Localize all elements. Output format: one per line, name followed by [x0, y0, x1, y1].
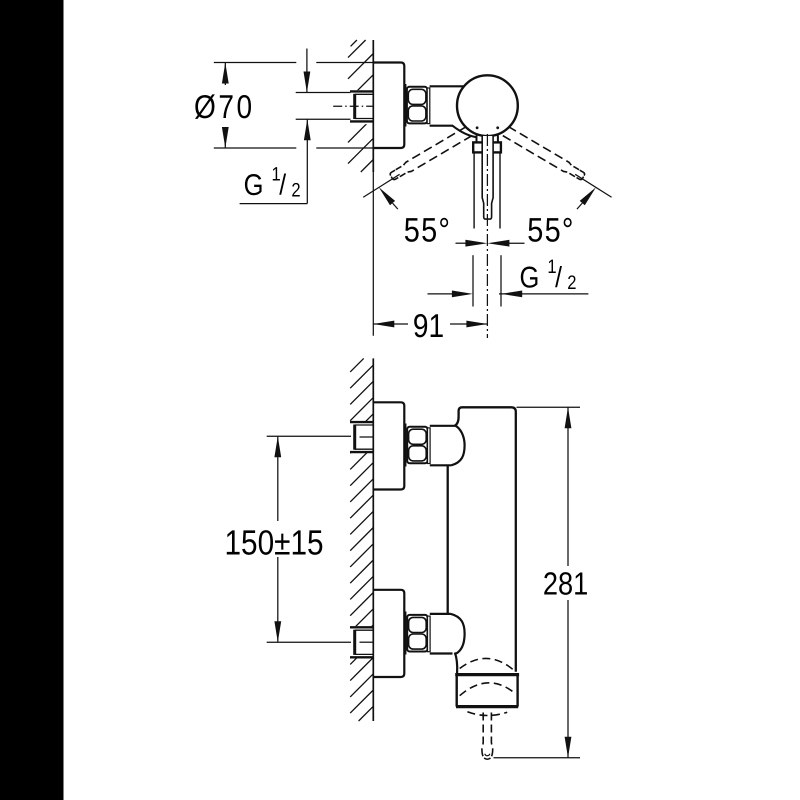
svg-text:G: G — [520, 261, 540, 294]
svg-text:G: G — [244, 169, 264, 202]
svg-text:55°: 55° — [527, 211, 575, 249]
svg-text:55°: 55° — [404, 211, 452, 249]
svg-text:2: 2 — [567, 272, 576, 294]
svg-text:/: / — [555, 262, 563, 294]
svg-text:/: / — [279, 170, 287, 202]
svg-text:91: 91 — [413, 307, 444, 344]
svg-text:2: 2 — [291, 180, 300, 202]
svg-text:Ø70: Ø70 — [194, 88, 255, 125]
svg-text:150±15: 150±15 — [224, 524, 323, 563]
svg-text:281: 281 — [543, 566, 588, 602]
